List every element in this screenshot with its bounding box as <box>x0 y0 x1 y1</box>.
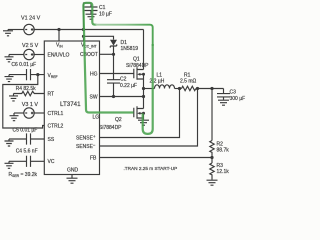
op-amp U1 LT3741 box <box>44 41 99 175</box>
svg-text:Q2: Q2 <box>115 117 122 123</box>
svg-text:C6 0.01 µF: C6 0.01 µF <box>11 62 36 68</box>
svg-text:RT: RT <box>48 91 55 97</box>
node L1 tap <box>142 87 145 90</box>
svg-text:2.5 mΩ: 2.5 mΩ <box>180 78 197 84</box>
transistor Q1 <box>126 56 149 79</box>
svg-text:EN/UVLO: EN/UVLO <box>48 52 70 58</box>
ground R3 <box>207 180 218 185</box>
ground C6 <box>5 75 14 82</box>
wire VIN rail <box>34 29 143 31</box>
node CBOOT junction <box>112 53 115 56</box>
svg-text:V3 1 V: V3 1 V <box>22 102 39 108</box>
wire HG <box>100 73 134 75</box>
node R2 tap <box>210 87 213 90</box>
ground C4 <box>5 161 14 168</box>
svg-text:FB: FB <box>90 155 97 161</box>
node VCC_INT corner <box>82 35 85 38</box>
svg-text:HG: HG <box>90 71 98 77</box>
wire Q1 drain <box>143 30 145 70</box>
wire CTRL1 <box>34 112 44 114</box>
svg-text:C2: C2 <box>120 77 127 83</box>
node VREF junction <box>36 73 39 76</box>
svg-text:SW: SW <box>90 94 98 100</box>
svg-text:88.7k: 88.7k <box>217 147 230 153</box>
voltage source V3 <box>24 108 34 118</box>
ground C5 <box>5 139 14 146</box>
capacitor C2 <box>107 54 120 96</box>
svg-text:R4 82.5k: R4 82.5k <box>16 86 37 92</box>
wire <box>14 112 24 114</box>
svg-text:LT3741: LT3741 <box>60 101 81 108</box>
capacitor C4 <box>9 156 44 167</box>
svg-text:C5 0.01 µF: C5 0.01 µF <box>13 127 38 133</box>
node FB junction <box>210 156 213 159</box>
svg-text:10 µF: 10 µF <box>99 12 112 18</box>
wire LG green loop overlay <box>83 3 133 113</box>
svg-text:0.22 µF: 0.22 µF <box>120 83 137 89</box>
svg-text:.TRAN 2.25 m START-UP: .TRAN 2.25 m START-UP <box>124 166 178 171</box>
capacitor C3 <box>217 89 230 100</box>
wire FB <box>100 157 213 159</box>
wire SW <box>100 96 144 98</box>
wire <box>8 29 24 31</box>
wire Q2 source <box>143 118 145 120</box>
diode D1 <box>110 40 117 46</box>
svg-text:Si7884DP: Si7884DP <box>126 63 149 69</box>
ground U1 GND <box>67 175 78 184</box>
ground R4 <box>9 94 18 101</box>
wire <box>9 54 24 56</box>
svg-text:VC: VC <box>48 159 55 165</box>
voltage source V2 <box>24 49 34 59</box>
ground V2 <box>5 55 14 62</box>
capacitor C5 <box>9 133 44 144</box>
ground Q2 <box>138 120 149 125</box>
wire SENSE- <box>100 89 198 147</box>
wire V_IN pin drop <box>58 30 60 42</box>
svg-text:300 µF: 300 µF <box>230 96 246 102</box>
capacitor C6 <box>9 69 44 80</box>
wire C1 arc-over <box>84 3 92 30</box>
node sense- tap <box>196 87 199 90</box>
node C1 junction <box>82 28 85 31</box>
node SW junction <box>142 95 145 98</box>
svg-text:CTRL1: CTRL1 <box>48 111 64 117</box>
node VIN junction V_IN pin <box>57 28 60 31</box>
resistor R1 <box>182 86 196 91</box>
capacitor C1 <box>85 7 98 14</box>
svg-text:V1 24 V: V1 24 V <box>21 16 41 22</box>
svg-text:Q1: Q1 <box>133 56 140 62</box>
resistor R3 <box>210 158 214 180</box>
svg-text:CTRL2: CTRL2 <box>48 123 64 129</box>
svg-text:C3: C3 <box>230 89 237 95</box>
svg-text:SS: SS <box>48 137 55 143</box>
wire Q2 drain <box>143 97 145 109</box>
wire SENSE+ <box>100 89 180 138</box>
ground C3 <box>218 100 229 105</box>
svg-text:D1: D1 <box>121 40 128 46</box>
node sense+ tap <box>178 87 181 90</box>
wire <box>175 88 182 90</box>
svg-text:1N5819: 1N5819 <box>121 46 139 52</box>
inductor L1 <box>155 85 175 89</box>
wire CBOOT <box>100 53 114 55</box>
svg-text:CBOOT: CBOOT <box>80 52 98 58</box>
svg-text:GND: GND <box>67 168 79 174</box>
svg-text:Si7884DP: Si7884DP <box>99 125 122 131</box>
node C2-SW junction <box>112 95 115 98</box>
wire VCC_INT to D1 <box>84 36 114 41</box>
resistor R4 <box>14 91 45 96</box>
ground V1 <box>3 30 13 36</box>
resistor R2 <box>210 89 214 158</box>
voltage source V1 <box>24 24 34 34</box>
wire EN <box>34 54 44 56</box>
svg-text:12.1k: 12.1k <box>217 169 230 175</box>
wire to L1 <box>144 88 155 90</box>
wire VREF to CTRL2 <box>3 75 45 128</box>
svg-text:V2 5 V: V2 5 V <box>22 43 39 49</box>
svg-text:LG: LG <box>93 114 100 120</box>
ground V3 <box>10 113 19 121</box>
svg-text:C4 5.6 nF: C4 5.6 nF <box>16 148 38 154</box>
svg-text:C1: C1 <box>99 5 106 11</box>
ground C1 <box>86 14 97 19</box>
transistor Q2 <box>99 106 145 131</box>
wire Q1 source to SW <box>143 79 145 97</box>
wire output rail <box>196 88 224 90</box>
